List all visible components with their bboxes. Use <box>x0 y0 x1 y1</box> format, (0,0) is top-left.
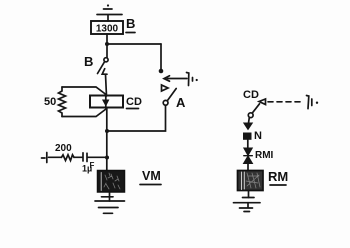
wire pivot to N contact <box>248 118 251 124</box>
resistor 200 zigzag <box>49 155 83 161</box>
node junction lower (RC branch) <box>105 156 109 160</box>
label CD <box>126 96 142 109</box>
svg-text:CD: CD <box>243 89 259 101</box>
relay coil CD box with arrow <box>90 96 123 108</box>
switch A blade <box>167 89 176 101</box>
wire switch A down and left to main line <box>109 105 166 131</box>
label VM <box>140 169 161 185</box>
wire right branch vertical <box>160 44 162 70</box>
wire battery box to switch B <box>106 34 108 58</box>
ground under RM <box>234 191 261 212</box>
capacitor 1uF <box>83 153 105 162</box>
wire top horizontal to right branch <box>107 43 161 45</box>
terminal left of 200 resistor <box>42 153 47 163</box>
wire RM1 to RM box <box>247 164 249 171</box>
svg-text:CD: CD <box>126 96 142 108</box>
switch A pivot circle <box>163 100 168 105</box>
resistor 50 zigzag <box>59 87 107 117</box>
svg-text:B: B <box>84 54 93 69</box>
ground under VM <box>95 192 125 213</box>
switch A arrow contact to terminal <box>164 73 198 86</box>
svg-text:200: 200 <box>55 143 72 154</box>
svg-text:VM: VM <box>142 169 161 183</box>
switch A upper node <box>159 69 164 74</box>
switch CD blade <box>252 104 259 113</box>
battery B top terminal symbol <box>97 4 122 21</box>
label B (battery) <box>126 16 135 33</box>
node junction mid (switch A return) <box>105 129 109 133</box>
wire N to RM1 <box>247 140 249 149</box>
svg-text:F: F <box>90 161 95 170</box>
terminal at right end <box>307 96 319 109</box>
svg-text:RM: RM <box>268 169 288 184</box>
svg-text:A: A <box>176 95 186 110</box>
label RM <box>268 169 288 185</box>
diode pair RM1 <box>244 148 253 164</box>
node junction top <box>105 42 109 46</box>
svg-text:B: B <box>126 16 135 31</box>
svg-text:50: 50 <box>44 96 56 108</box>
switch B <box>98 58 109 74</box>
battery B1 box 1300 <box>91 21 123 35</box>
svg-text:N: N <box>254 130 262 142</box>
meter VM box (dark hatched) <box>98 171 125 193</box>
switch A lower fixed contact triangle <box>162 85 169 91</box>
contact N: filled arrow and square <box>244 123 253 139</box>
meter RM box (hatched) <box>238 171 264 191</box>
switch CD fixed contact triangle <box>259 99 266 105</box>
svg-text:RMI: RMI <box>255 150 274 161</box>
wire switch B to CD coil <box>106 75 107 97</box>
wire CD coil down to VM <box>106 108 108 171</box>
svg-text:1300: 1300 <box>96 24 119 35</box>
switch CD pivot circle <box>248 113 253 118</box>
dashed wire to terminal <box>268 101 304 103</box>
